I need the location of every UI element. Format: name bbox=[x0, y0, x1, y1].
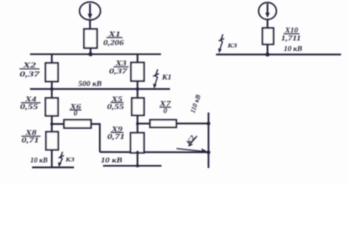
junction dot X9-bus bbox=[136, 164, 139, 167]
resistor X10 bbox=[263, 28, 274, 44]
generator G2 circle bbox=[259, 3, 277, 20]
svg-text:1,711: 1,711 bbox=[281, 33, 301, 42]
wire X7 to 110kV line bbox=[176, 123, 208, 125]
svg-text:0,37: 0,37 bbox=[20, 69, 40, 78]
bus 10kV right bbox=[103, 165, 162, 167]
svg-text:0,71: 0,71 bbox=[22, 136, 40, 145]
resistor X9 bbox=[131, 133, 144, 153]
wire X8 to bus 10kV left bbox=[51, 150, 53, 168]
wire G2 to X10 bbox=[267, 20, 269, 29]
wire X3 to bus2 bbox=[137, 81, 139, 89]
110kV vertical line bbox=[208, 113, 210, 169]
wire bus1 to X3 bbox=[137, 54, 139, 62]
junction dot X3-bus2 bbox=[136, 87, 139, 90]
resistor X1 bbox=[84, 29, 97, 48]
fault K1 symbol bbox=[153, 69, 159, 89]
label X6 value bbox=[69, 103, 82, 118]
fault K3 right symbol bbox=[218, 34, 224, 53]
svg-text:0,55: 0,55 bbox=[107, 102, 124, 111]
wire X6 right bbox=[91, 124, 100, 152]
svg-text:0: 0 bbox=[163, 106, 167, 115]
label X5 value bbox=[107, 96, 124, 111]
resistor X2 bbox=[46, 63, 59, 82]
wire bus1 to X2 bbox=[51, 54, 53, 63]
wire X4 to X8 bbox=[51, 116, 53, 132]
wire X5 to X9 bbox=[137, 115, 139, 133]
junction dot G2-bus bbox=[266, 53, 270, 57]
junction dot X6 branch bbox=[50, 123, 53, 126]
svg-text:К1: К1 bbox=[161, 74, 172, 82]
label X7 value bbox=[158, 100, 171, 115]
svg-text:10 кВ: 10 кВ bbox=[284, 45, 303, 53]
resistor X5 bbox=[132, 98, 144, 115]
svg-text:0,206: 0,206 bbox=[103, 38, 124, 47]
svg-text:0,71: 0,71 bbox=[107, 132, 125, 141]
wire X9 to bus 10kV right bbox=[137, 153, 139, 166]
junction dot X2-bus2 bbox=[50, 87, 53, 90]
svg-text:0: 0 bbox=[74, 109, 78, 118]
label X8 value bbox=[22, 129, 41, 144]
junction dot lineA-X9wire crossing bbox=[136, 151, 139, 154]
resistor X3 bbox=[131, 63, 144, 82]
wire X10 to bus 10kV right-section bbox=[267, 44, 269, 54]
svg-text:10 кВ: 10 кВ bbox=[101, 157, 123, 165]
svg-text:0,55: 0,55 bbox=[20, 102, 38, 111]
resistor X8 bbox=[46, 132, 58, 150]
wire bus2 to X4 bbox=[51, 89, 53, 98]
wire junction to X7 bbox=[138, 123, 151, 125]
wire G1 to X1 bbox=[89, 20, 91, 30]
label X4 value bbox=[20, 96, 41, 111]
wire bus2 to X5 bbox=[137, 89, 139, 98]
junction dot bus1 bbox=[89, 52, 93, 56]
generator G1 circle bbox=[80, 2, 101, 20]
generator G2 arrowhead bbox=[265, 13, 269, 18]
resistor X6 bbox=[64, 120, 91, 128]
svg-text:К3: К3 bbox=[226, 43, 238, 50]
wire X1 to bus1 bbox=[90, 48, 92, 54]
label X2 value bbox=[20, 62, 40, 79]
bus 10kV right section bbox=[216, 54, 341, 56]
label X3 value bbox=[109, 60, 129, 76]
wire line A to 110kV node bbox=[100, 151, 209, 153]
label X10 value bbox=[281, 27, 301, 43]
fault K2 symbol bbox=[177, 136, 209, 153]
junction dot X7-110kV bbox=[207, 122, 211, 126]
bus 500kV top line bbox=[30, 53, 161, 55]
generator G2 arrow shaft bbox=[267, 4, 269, 15]
generator G1 arrowhead bbox=[88, 14, 93, 19]
wire junction to X6 bbox=[52, 123, 64, 125]
label X9 value bbox=[107, 126, 125, 142]
fault K3 left symbol bbox=[58, 152, 64, 167]
junction dot lineA-110kV bbox=[207, 151, 211, 155]
svg-text:К3: К3 bbox=[64, 157, 75, 164]
resistor X4 bbox=[46, 98, 59, 116]
bus 10kV left bbox=[32, 166, 74, 168]
junction dot X7 branch bbox=[136, 122, 139, 125]
generator G1 arrow shaft bbox=[89, 4, 91, 16]
bus2 line bbox=[30, 88, 170, 90]
wire X2 to bus2 bbox=[51, 82, 53, 90]
resistor X7 bbox=[150, 120, 176, 128]
svg-text:500 кВ: 500 кВ bbox=[78, 80, 102, 88]
label X1 value bbox=[103, 31, 124, 47]
svg-text:0,37: 0,37 bbox=[109, 66, 127, 75]
svg-text:10 кВ: 10 кВ bbox=[30, 157, 48, 165]
